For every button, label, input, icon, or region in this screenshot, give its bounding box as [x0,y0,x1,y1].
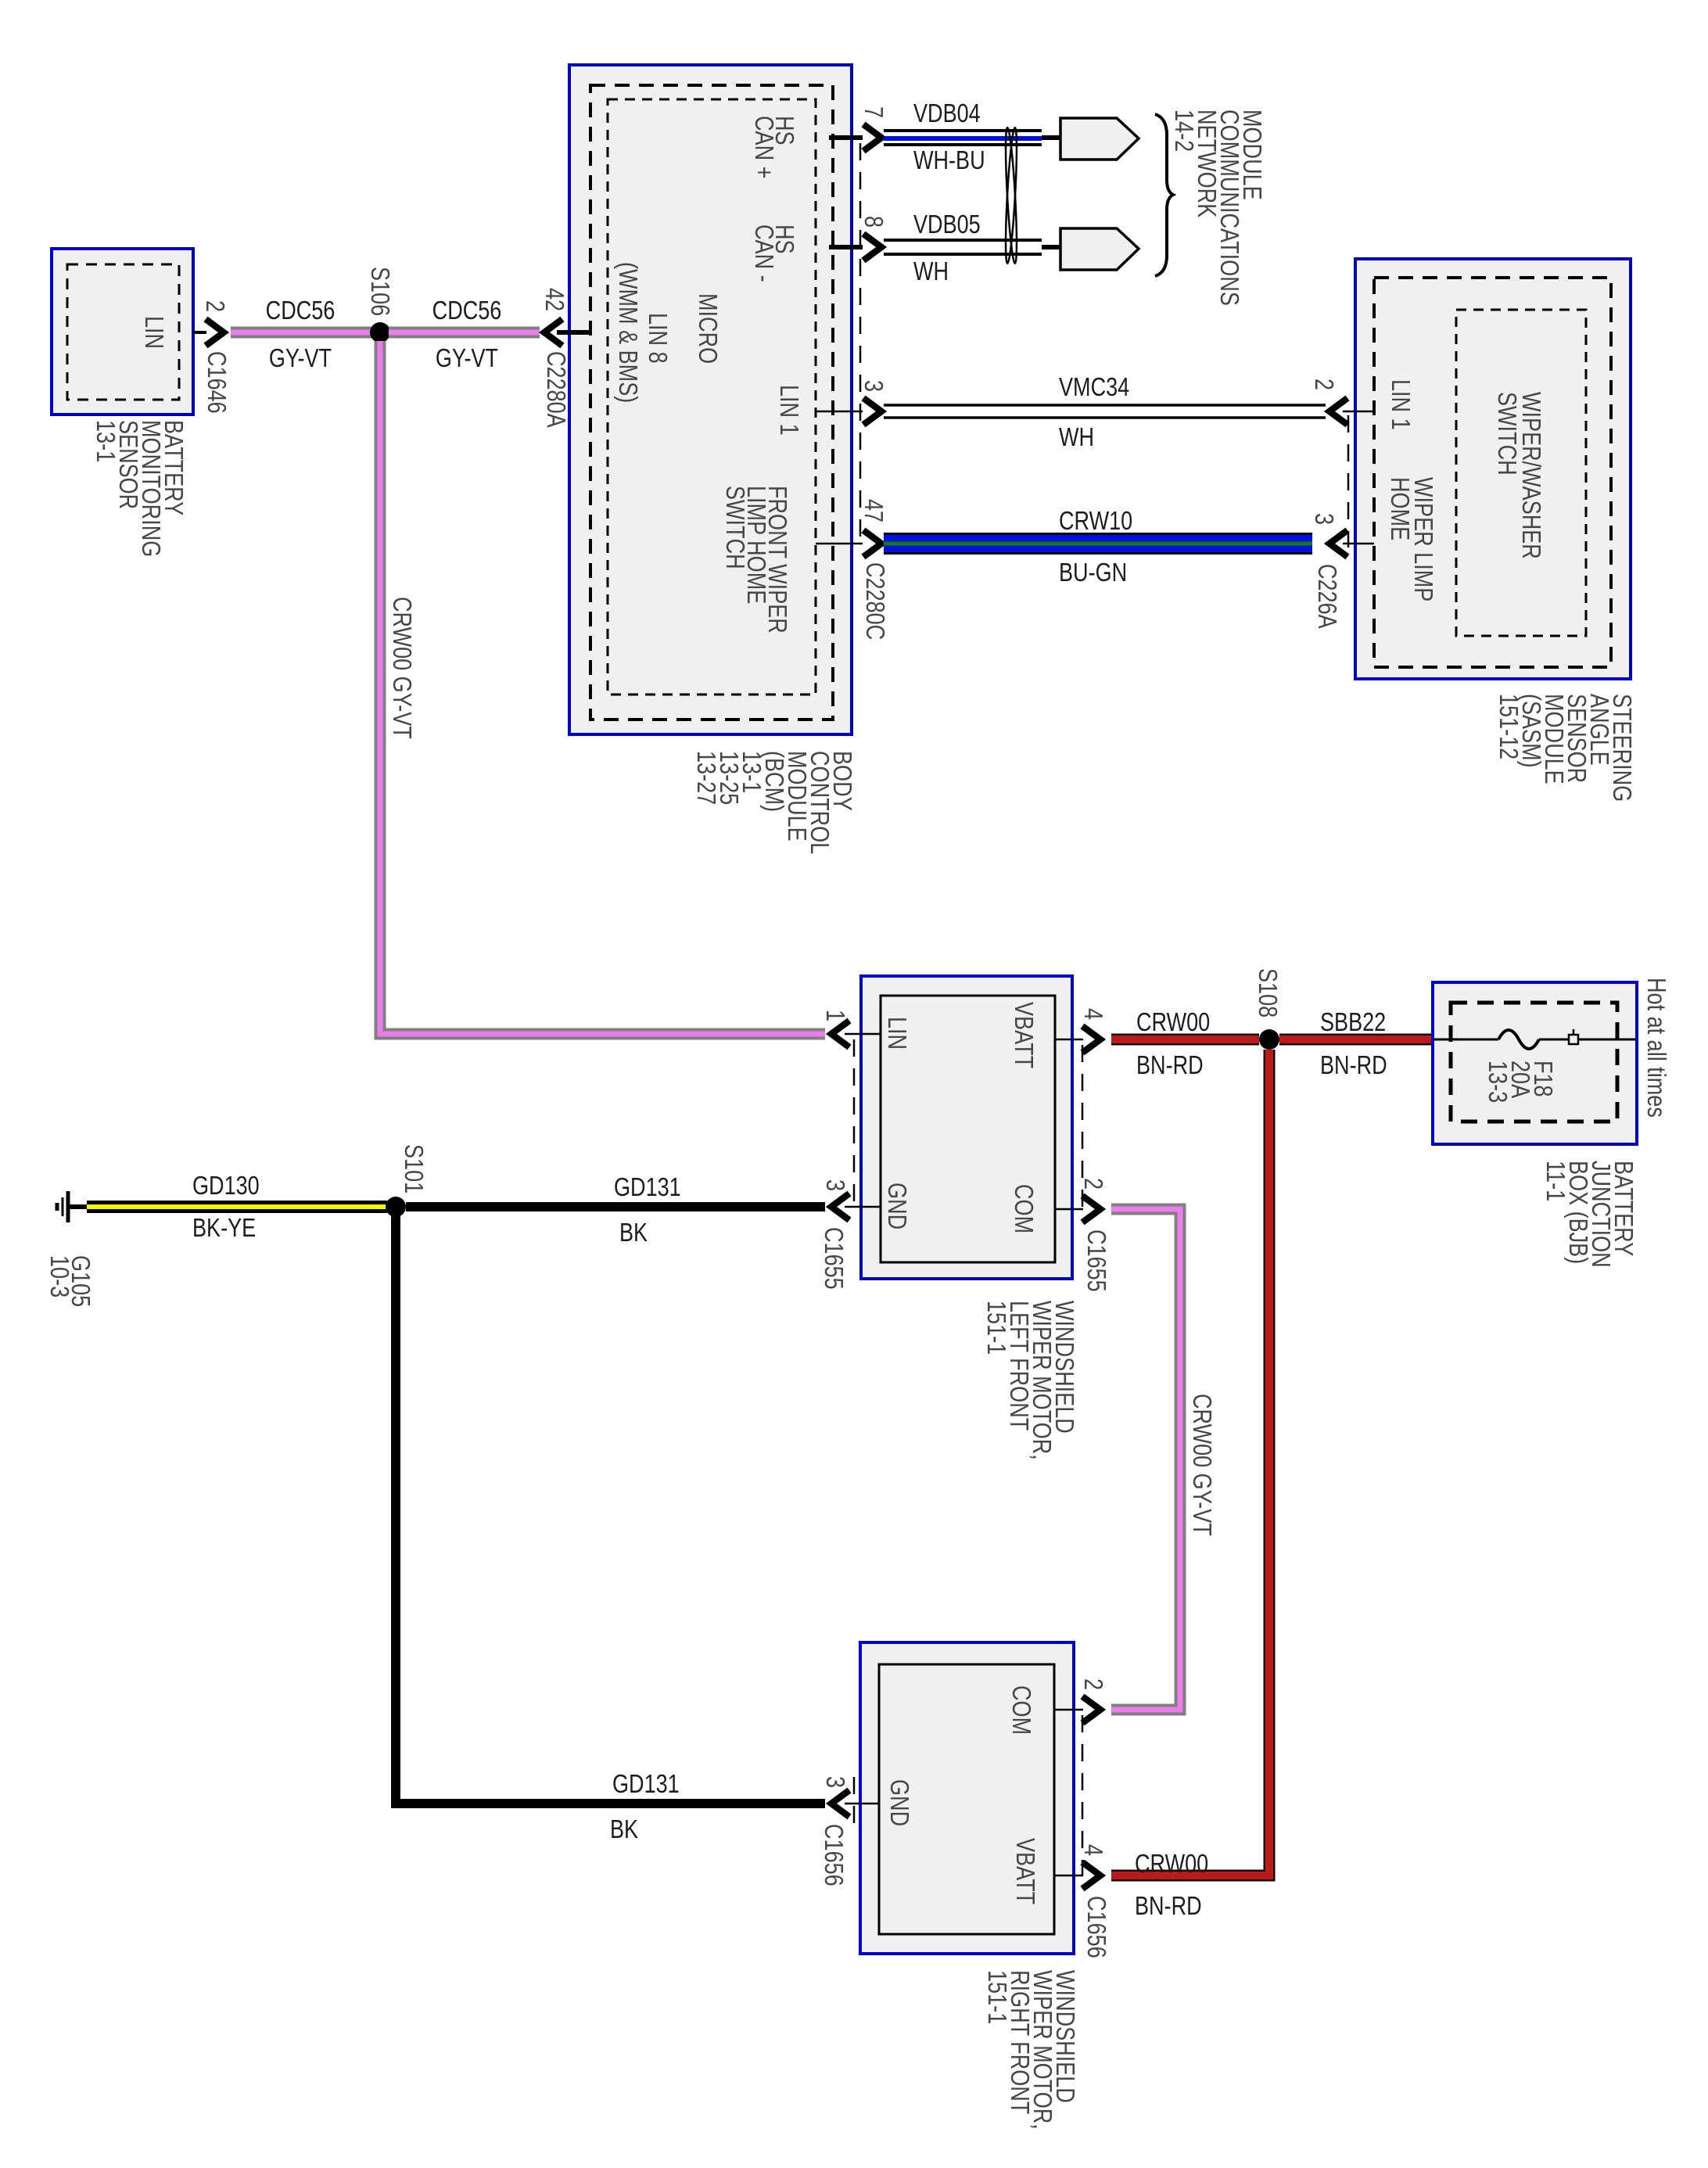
svg-text:C2280A: C2280A [541,351,569,429]
svg-text:151-12: 151-12 [1494,694,1522,759]
svg-text:CRW10: CRW10 [1059,508,1132,536]
pin label HS CAN - [749,224,798,282]
node S101 [386,1197,406,1217]
twisted pair loop symbol [1003,127,1019,264]
svg-text:C2280C: C2280C [860,562,888,640]
svg-text:2: 2 [1078,1678,1107,1690]
svg-text:LIN: LIN [882,1017,910,1050]
wire CRW00 BN-RD (L motor to S108) [1111,1034,1259,1046]
component label BATTERY MONITORING SENSOR 13-1 [91,420,187,557]
BCM pin 8 stub and arrow [829,216,887,260]
svg-text:GD131: GD131 [614,1174,681,1202]
svg-text:4: 4 [1078,1008,1107,1020]
BCM pin 7 stub and arrow [829,106,887,151]
component label BODY CONTROL MODULE (BCM) [691,751,856,854]
svg-text:BN-RD: BN-RD [1135,1893,1202,1921]
svg-text:LIN: LIN [139,316,167,349]
pin label HS CAN + [749,116,798,178]
svg-text:BN-RD: BN-RD [1136,1052,1204,1080]
svg-text:8: 8 [859,216,887,228]
SASM pin 2 arrow [1309,379,1374,425]
pin 42 arrow (BCM) [544,319,562,346]
wire GD130 BK-YE [87,1201,387,1213]
svg-text:MICRO: MICRO [693,293,721,364]
svg-text:S101: S101 [399,1144,427,1193]
wiper/washer switch (SASM) box [1355,259,1631,679]
R motor pin 3 arrow [820,1776,879,1817]
svg-text:CDC56: CDC56 [432,297,502,325]
svg-text:COM: COM [1006,1685,1035,1735]
svg-text:C1646: C1646 [202,351,230,414]
wire to right motor GND [396,1211,825,1804]
svg-text:S106: S106 [365,267,393,316]
svg-text:3: 3 [820,1776,849,1788]
svg-text:C1655: C1655 [1082,1229,1110,1292]
label G105 10-3 [45,1255,94,1307]
L motor pin 2 arrow [1055,1178,1107,1222]
L motor pin 1 arrow [820,1010,881,1047]
svg-text:3: 3 [859,380,887,392]
wire CDC56 segment 2 [389,327,540,339]
wire VDB05 WH twisted pair [884,240,1042,254]
svg-text:SWITCH: SWITCH [1492,392,1520,476]
svg-text:C1656: C1656 [1082,1896,1110,1958]
component label WINDSHIELD WIPER MOTOR, RIGHT FRONT 151-1 [982,1970,1078,2130]
svg-text:VDB05: VDB05 [913,211,981,239]
L motor pin 3 arrow [820,1179,881,1220]
BCM pin 3 stub and arrow [816,380,887,425]
R motor pin 2 arrow [1054,1678,1107,1723]
wire CRW00 GY-VT vertical from S106 [380,341,825,1034]
svg-text:SBB22: SBB22 [1320,1009,1386,1037]
svg-text:(WMM & BMS): (WMM & BMS) [613,262,641,403]
svg-text:SWITCH: SWITCH [720,486,748,569]
label MODULE COMMUNICATIONS NETWORK 14-2 [1169,109,1265,306]
wire VDB04 WH-BU twisted pair [884,131,1042,145]
svg-text:11-1: 11-1 [1541,1161,1569,1201]
svg-text:13-3: 13-3 [1483,1061,1511,1103]
battery junction box [1433,982,1637,1144]
svg-text:VBATT: VBATT [1009,1002,1037,1068]
svg-text:CRW00 GY-VT: CRW00 GY-VT [387,597,415,739]
connector strip R motor right [1082,1715,1084,1875]
svg-text:GD131: GD131 [612,1771,680,1799]
connector strip R motor left [853,1777,856,1830]
svg-text:WH-BU: WH-BU [913,147,985,175]
windshield wiper motor right front box [860,1642,1074,1954]
battery monitoring sensor box [52,249,193,415]
svg-text:C1656: C1656 [819,1824,847,1886]
svg-text:7: 7 [859,106,887,118]
svg-text:42: 42 [540,288,568,311]
svg-text:BN-RD: BN-RD [1320,1052,1387,1080]
L motor pin 4 arrow [1055,1008,1107,1053]
svg-text:GND: GND [882,1183,910,1229]
BCM box [569,65,852,734]
svg-text:LIN 1: LIN 1 [1386,379,1414,430]
wire CDC56 segment 1 [193,331,371,334]
ground G105 symbol [57,1191,88,1222]
svg-text:VDB04: VDB04 [913,100,981,128]
pin label WIPER LIMP HOME [1385,477,1437,601]
svg-text:1: 1 [820,1010,849,1021]
connector strip BCM right [859,143,862,544]
network flag connector 2 [1042,228,1139,270]
svg-text:S108: S108 [1253,968,1281,1018]
svg-text:BK: BK [610,1816,638,1844]
label LIN 8 (WMM & BMS) [613,262,671,403]
svg-text:WH: WH [913,258,949,286]
node S106 [370,322,390,343]
BCM pin 47 stub and arrow [816,499,887,557]
windshield wiper motor left front box [861,976,1072,1279]
svg-text:GY-VT: GY-VT [269,345,332,373]
svg-text:CRW00 GY-VT: CRW00 GY-VT [1187,1394,1215,1536]
wire CRW00 GY-VT (COM link) [1111,1209,1180,1710]
svg-text:C1655: C1655 [819,1227,847,1290]
svg-text:BK-YE: BK-YE [192,1215,256,1243]
svg-text:2: 2 [1309,379,1337,390]
svg-text:CDC56: CDC56 [266,297,335,325]
svg-text:VBATT: VBATT [1010,1838,1039,1904]
label F18 20A 13-3 [1483,1061,1556,1103]
svg-text:GY-VT: GY-VT [436,345,498,373]
svg-text:2: 2 [1078,1178,1107,1190]
svg-text:CRW00: CRW00 [1135,1850,1208,1879]
connector strip L motor left [853,1039,856,1207]
wire SBB22 BN-RD [1279,1034,1433,1046]
connector strip L motor right [1082,1045,1084,1209]
component label STEERING ANGLE SENSOR MODULE (SASM) 151-12 [1494,694,1635,802]
svg-text:GND: GND [884,1779,913,1826]
network flag connector 1 [1042,118,1139,160]
svg-text:10-3: 10-3 [45,1255,73,1298]
svg-text:BK: BK [619,1219,648,1247]
fuse F18 [1433,1029,1635,1049]
node S108 [1259,1029,1279,1050]
svg-text:2: 2 [200,300,228,312]
svg-text:VMC34: VMC34 [1059,374,1129,402]
SASM pin 3 arrow [1309,513,1374,557]
svg-text:WH: WH [1059,424,1094,452]
svg-text:Hot at all times: Hot at all times [1642,978,1670,1118]
svg-text:CRW00: CRW00 [1136,1009,1210,1037]
svg-text:47: 47 [859,499,887,522]
svg-text:COM: COM [1009,1184,1037,1233]
svg-text:LIN 1: LIN 1 [774,385,802,436]
pin 2 arrow (BMS) [206,319,224,346]
svg-text:3: 3 [1309,513,1337,525]
svg-text:HOME: HOME [1385,477,1413,540]
svg-text:3: 3 [820,1179,849,1191]
svg-text:BU-GN: BU-GN [1059,559,1127,587]
brace [1155,114,1173,276]
svg-text:CAN +: CAN + [749,116,777,178]
svg-text:151-1: 151-1 [982,1970,1010,2024]
svg-text:13-1: 13-1 [91,420,119,462]
svg-text:GD130: GD130 [192,1172,260,1201]
wire VMC34 WH [884,405,1326,418]
svg-text:C226A: C226A [1312,564,1340,629]
pin label FRONT WIPER LIMP HOME SWITCH [720,486,791,634]
wire GD131 upper [406,1202,825,1211]
wire CRW10 BU-GN [884,533,1312,555]
svg-text:LIN 8: LIN 8 [643,313,671,364]
component label WINDSHIELD WIPER MOTOR, LEFT FRONT 151-1 [981,1301,1078,1460]
connector strip SASM [1347,415,1350,547]
svg-text:13-27: 13-27 [691,751,719,805]
label WIPER/WASHER SWITCH [1492,392,1545,559]
R motor pin 4 arrow [1054,1844,1107,1889]
svg-text:14-2: 14-2 [1169,109,1197,152]
wire CRW00 BN-RD vertical to R motor [1111,1050,1269,1875]
svg-text:151-1: 151-1 [981,1301,1010,1355]
svg-text:CAN -: CAN - [749,224,777,282]
component label BATTERY JUNCTION BOX (BJB) 11-1 [1541,1161,1637,1268]
